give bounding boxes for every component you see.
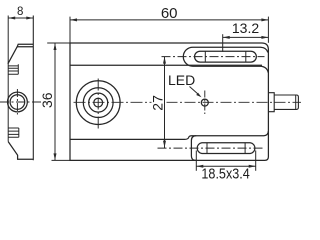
sensing coil circle 2 [83,88,113,118]
LED hole vertical centerline [204,91,206,115]
dim 27 arrows [163,57,166,148]
dim 13.2 dimension line [223,36,269,38]
dim 8 arrows [8,17,33,20]
side view hole vertical centerline [16,89,18,115]
main horizontal centerline right segment [167,101,302,103]
dim 18.5x3.4 left extension line [195,151,197,171]
side view bottom chamfer diagonal [8,142,33,160]
front view upper parting line [70,64,262,66]
lower parting line with step up to foot top edge [70,131,268,139]
sensing coil circle 4 (inner) [94,98,103,107]
svg-text:18.5x3.4: 18.5x3.4 [201,164,250,181]
front view body outline [70,43,268,160]
side view bottom groove stack [8,128,19,137]
connector stud chamfer line [295,95,297,109]
dim 36 dimension line [54,43,56,160]
dim 60 arrows [70,18,268,21]
side view top chamfer diagonal [8,47,17,64]
LED hole [201,99,208,106]
dim 60 left extension line [69,17,71,43]
side view top flag (slot recess edge-on) [17,44,33,47]
top slot recess outline [183,47,268,73]
dim 13.2 arrows [223,36,269,39]
main horizontal centerline left segment [74,101,152,103]
dim 36 top extension line [47,42,70,44]
bottom slot tangent ticks [207,143,245,154]
side view right edge + dim-8 right extension line [32,16,34,161]
svg-text:60: 60 [161,5,178,22]
side view horizontal centerline [0,101,43,103]
top slot tangent ticks [205,51,246,62]
side view left edge + dim-8 left extension line [7,16,9,142]
side view mounting hole inner circle [10,95,25,110]
dim 36 bottom extension line [52,159,71,161]
svg-text:27: 27 [150,95,166,111]
dim 8 dimension line [8,17,33,19]
svg-text:8: 8 [17,6,23,18]
connector stud shank [274,95,298,109]
bottom slot oblong [197,143,255,154]
dim 36 arrows [54,43,57,160]
sensing coil circle 3 [89,93,108,112]
top slot dash-dot centerline [162,56,265,58]
bottom slot dash-dot centerline [158,147,263,149]
dim 27 dimension line [164,57,166,149]
svg-text:LED: LED [168,72,195,88]
dim 18.5x3.4 dimension line [196,165,255,167]
svg-text:36: 36 [39,92,55,108]
connector stud collar [269,93,275,112]
dim 60 dimension line [70,19,268,21]
LED leader arrowhead [196,93,201,97]
dim 60 right extension line [267,17,269,43]
top slot oblong [195,51,257,62]
side view top groove stack [8,64,18,74]
foot left edge with rounded corners [191,136,196,161]
dim 18.5x3.4 arrows [196,165,255,168]
sensing coil circle 1 (outer) [76,81,120,125]
dim 13.2 left extension line [222,34,224,52]
side view mounting hole outer circle [8,92,28,112]
LED leader line [190,87,199,95]
dim 18.5x3.4 right extension line [255,151,257,171]
svg-text:13.2: 13.2 [232,20,259,36]
coil vertical centerline [97,79,99,129]
